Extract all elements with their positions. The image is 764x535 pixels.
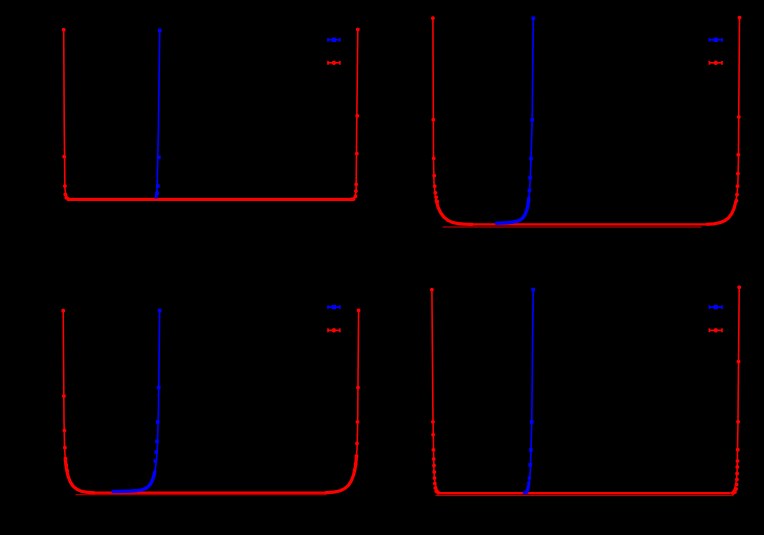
TL red markers bbox=[62, 28, 66, 32]
BL red lower line bbox=[76, 494, 326, 496]
BL red markers bbox=[61, 309, 65, 313]
TR red curve left branch bbox=[433, 18, 472, 224]
TR blue markers bbox=[532, 16, 536, 20]
TL red curve flat bottom bbox=[69, 198, 353, 201]
BR red curve flat bottom bbox=[440, 492, 729, 494]
legend blue handle bbox=[328, 38, 340, 42]
BL red curve left branch bbox=[63, 311, 94, 493]
subplot top-left bbox=[62, 28, 360, 202]
BL red curve flat bottom bbox=[92, 492, 330, 494]
TL blue curve bbox=[156, 30, 160, 197]
subplot bottom-left bbox=[61, 305, 360, 495]
legend red handle bbox=[328, 328, 340, 332]
TL blue markers bbox=[158, 29, 162, 33]
TR blue curve bbox=[497, 18, 534, 223]
BL blue curve bbox=[113, 311, 160, 492]
subplot top-right bbox=[431, 16, 741, 227]
BL blue markers bbox=[158, 309, 162, 313]
BR red curve right branch bbox=[730, 287, 740, 493]
legend red handle bbox=[709, 61, 722, 65]
TL red curve left branch bbox=[64, 30, 72, 200]
BL red curve right branch bbox=[326, 310, 359, 492]
subplot bottom-right bbox=[430, 285, 741, 495]
BR blue markers bbox=[531, 288, 535, 292]
TL red curve right branch bbox=[351, 30, 358, 200]
legend red handle bbox=[709, 328, 722, 332]
BR red curve left branch bbox=[432, 290, 442, 494]
BR red markers bbox=[430, 288, 434, 292]
legend blue handle bbox=[709, 305, 722, 309]
TR red curve flat bottom bbox=[470, 223, 714, 225]
TR red curve right branch bbox=[707, 18, 740, 225]
BR red lower line bbox=[436, 495, 733, 497]
TR red lower line bbox=[443, 226, 701, 228]
BR blue curve bbox=[524, 290, 534, 493]
TR red markers bbox=[431, 16, 435, 20]
legend blue handle bbox=[709, 38, 722, 42]
legend red handle bbox=[328, 61, 340, 65]
legend blue handle bbox=[328, 305, 340, 309]
